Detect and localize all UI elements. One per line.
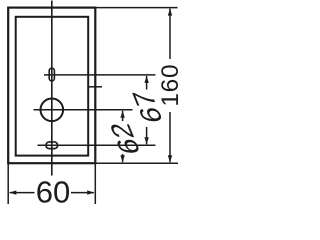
arrow 62 bottom bbox=[120, 155, 124, 162]
circle bbox=[41, 99, 64, 122]
bottom slot crosshair bbox=[38, 144, 156, 146]
right extension bbox=[94, 163, 96, 204]
arrow 67 top bbox=[144, 76, 148, 83]
outer rect bbox=[8, 8, 95, 164]
arrow 67 bottom bbox=[144, 137, 148, 144]
bottom extension bbox=[95, 162, 178, 164]
arrow 160 bottom bbox=[168, 155, 172, 162]
left extension bbox=[7, 163, 9, 204]
bottom slot bbox=[46, 142, 58, 149]
dim 160 bbox=[169, 9, 171, 59]
short line bbox=[88, 86, 102, 88]
arrow 62 top bbox=[120, 111, 124, 118]
arrow 60 left bbox=[9, 190, 16, 194]
svg-text:60: 60 bbox=[36, 175, 70, 205]
arrow 60 right bbox=[87, 190, 94, 194]
inner rect bbox=[16, 17, 89, 156]
dim 67 bbox=[146, 76, 148, 90]
top slot crosshair bbox=[44, 74, 155, 76]
circle crosshair bbox=[34, 109, 133, 111]
centerline bbox=[51, 1, 53, 176]
top slot bbox=[49, 68, 54, 81]
arrow 160 top bbox=[168, 9, 172, 16]
dim 62 bbox=[122, 111, 124, 121]
dim 60 bbox=[10, 192, 35, 194]
top extension bbox=[95, 7, 177, 9]
